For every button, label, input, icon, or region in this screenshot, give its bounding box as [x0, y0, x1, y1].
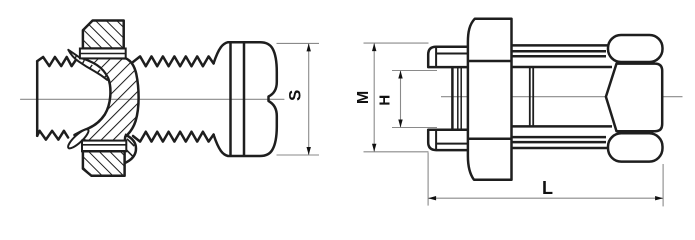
middle facet hexagon — [606, 64, 662, 132]
top band (bolt leg) — [512, 45, 613, 148]
top nut (hatched) — [80, 21, 126, 59]
svg-text:H: H — [376, 95, 393, 106]
top tab — [428, 47, 472, 67]
L dimension — [428, 153, 663, 207]
centerline right view — [441, 96, 683, 98]
bottom facet stadium — [608, 133, 663, 161]
clamp body (hatched section) — [66, 50, 139, 151]
right thread zigzag bottom — [133, 132, 214, 142]
top washer — [80, 49, 126, 59]
lower lip (tongue) — [66, 127, 91, 151]
upper lip (beak) — [68, 50, 108, 80]
M dimension — [355, 43, 428, 152]
left rod left edge — [36, 61, 39, 136]
centerline left view — [21, 98, 285, 100]
svg-text:L: L — [542, 178, 553, 198]
bottom-right bulge arc — [125, 135, 136, 164]
left rod bottom thread zigzag — [37, 131, 68, 140]
right thread zigzag top — [133, 56, 214, 66]
nut side view — [468, 19, 512, 180]
bolt head right view: top facet stadium — [608, 35, 663, 62]
inner box verticals — [529, 67, 531, 126]
nut facet lines — [468, 60, 512, 63]
S dimension — [277, 43, 320, 155]
H dimension — [376, 71, 437, 128]
svg-text:M: M — [355, 91, 372, 104]
bolt head left view — [214, 42, 277, 156]
bottom tab — [428, 130, 472, 150]
svg-text:S: S — [286, 90, 305, 101]
bottom nut (hatched) — [83, 151, 125, 176]
left rod top thread zigzag — [37, 57, 75, 66]
clamp bar verticals — [452, 67, 461, 130]
bottom washer — [82, 141, 126, 152]
bolt head washer-face lines — [229, 42, 232, 156]
upper lip ticks — [75, 55, 107, 78]
